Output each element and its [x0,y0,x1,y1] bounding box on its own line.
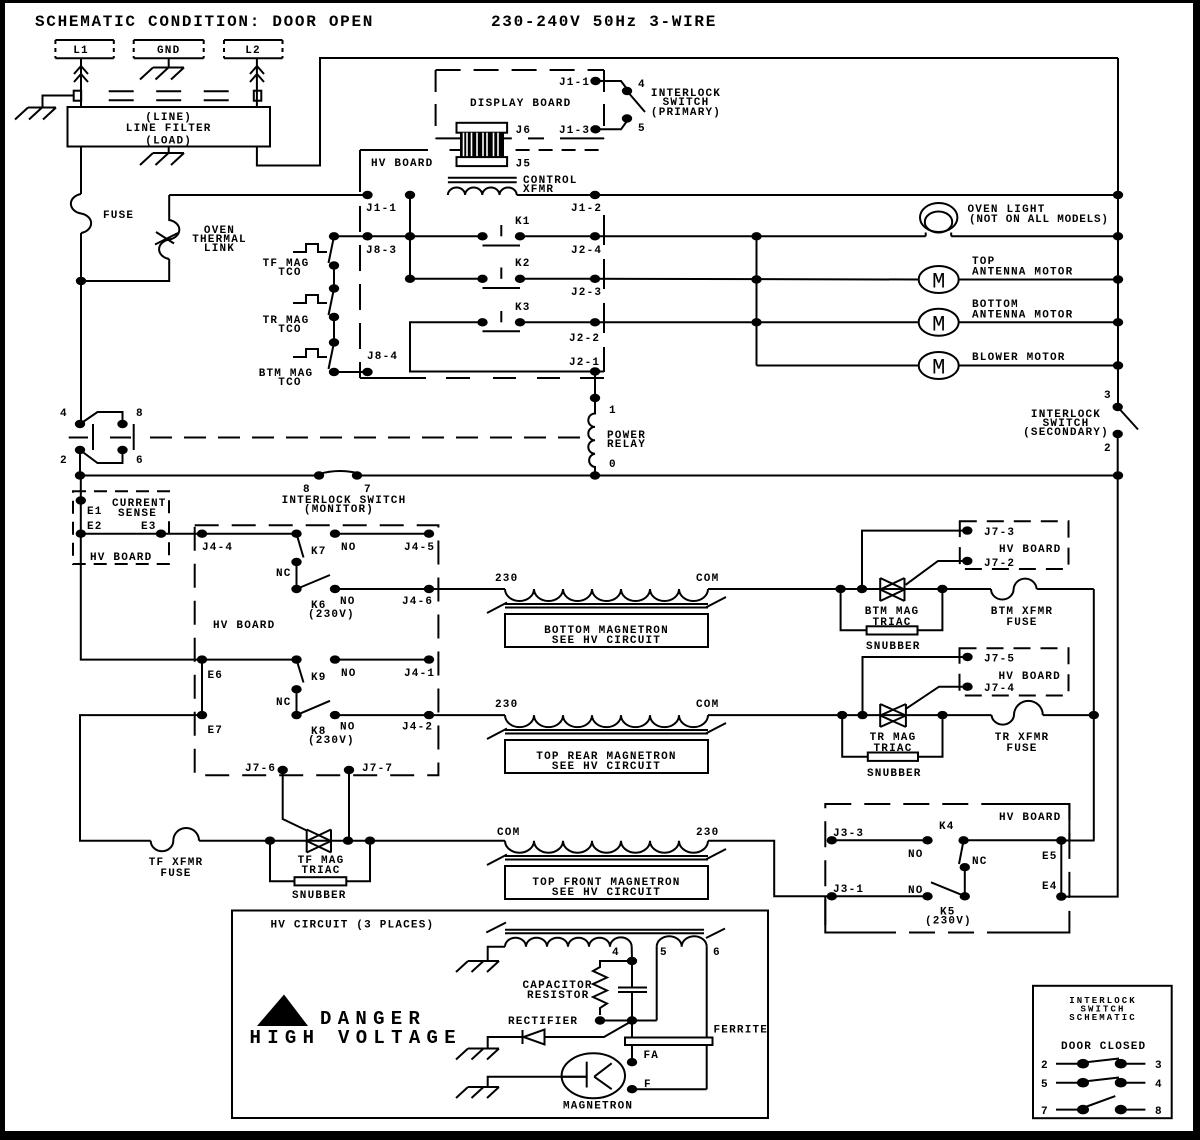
node K9 NC [291,685,301,693]
node 4 [627,957,637,965]
node motor feed top [751,232,761,240]
wire bottom antenna motor to bus [959,321,1118,323]
HV circuit box [232,911,768,1119]
wire tr row [708,714,992,716]
thermal cutout BTM MAG TCO [259,338,340,389]
wire F to winding 6 [632,1088,707,1090]
wire bus to current sense [80,476,82,534]
svg-text:J7-4: J7-4 [984,683,1015,695]
node J3-1 [827,892,837,900]
node btm snubber right [937,585,947,593]
node at relay common bus top [405,191,415,199]
svg-text:ANTENNA MOTOR: ANTENNA MOTOR [972,310,1073,322]
wire K2 to J2-3 [520,278,595,280]
svg-text:J4-1: J4-1 [404,668,435,680]
HV board box (J7-5/J7-4) [960,648,1069,695]
node feed J2-3 [751,275,761,283]
wire E2 to E3 to J4-4 [81,533,297,535]
svg-text:SNUBBER: SNUBBER [867,768,922,780]
node K8 NO [330,711,340,719]
wire tf row [199,840,505,842]
node K6 NO [330,585,340,593]
thermal cutout TR MAG TCO [263,284,340,336]
svg-text:(230V): (230V) [308,735,355,747]
node E7 [197,711,207,719]
node E5 [1056,836,1066,844]
wire J3-1 to K5 NO [832,895,928,897]
wire ground to magnetron cathode [488,1077,587,1087]
svg-text:ANTENNA MOTOR: ANTENNA MOTOR [972,267,1073,279]
svg-text:6: 6 [136,455,144,467]
svg-text:TRIAC: TRIAC [301,865,340,877]
node E2 [76,530,86,538]
svg-text:E1: E1 [87,506,103,518]
node tf snubber left [265,837,275,845]
wire J7-7 down [348,770,350,841]
node K9 NO [330,655,340,663]
svg-text:HIGH VOLTAGE: HIGH VOLTAGE [250,1027,462,1049]
svg-text:DOOR CLOSED: DOOR CLOSED [1061,1041,1146,1053]
svg-text:HV BOARD: HV BOARD [999,812,1061,824]
node J7-4 [962,683,972,691]
rectifier [488,1016,631,1049]
svg-text:5: 5 [660,947,668,959]
wire NC to K6 [296,562,298,589]
svg-text:NO: NO [340,596,356,608]
svg-text:NO: NO [908,849,924,861]
svg-text:K2: K2 [515,258,531,270]
wire J1-1 to primary switch [596,81,628,89]
relay contact K2 [477,258,530,288]
svg-text:L1: L1 [73,45,89,57]
wire J7-2 to btm triac gate [906,561,968,585]
node J2-3 [590,275,600,283]
svg-text:(MONITOR): (MONITOR) [304,504,374,516]
top antenna motor [919,266,959,295]
wire filter left output down [80,147,82,195]
node J2-1 [590,367,600,375]
svg-text:LINE FILTER: LINE FILTER [126,123,212,135]
svg-text:J1-2: J1-2 [571,203,602,215]
wire tr fuse to bus node [1043,714,1094,716]
svg-text:4: 4 [612,947,620,959]
svg-text:COM: COM [497,827,520,839]
svg-text:J6: J6 [516,125,532,137]
wire NC to K8 [296,689,298,715]
node J7-7 [344,766,354,774]
relay K7 [291,530,326,559]
top rear magnetron transformer primary [487,699,726,739]
svg-text:(LOAD): (LOAD) [145,136,192,148]
svg-text:E5: E5 [1042,851,1058,863]
svg-text:BLOWER MOTOR: BLOWER MOTOR [972,352,1066,364]
svg-text:3: 3 [1155,1060,1163,1072]
bottom bus right section [357,475,1118,477]
node K4 NC [960,863,970,871]
svg-text:J2-2: J2-2 [569,333,600,345]
svg-text:HV BOARD: HV BOARD [371,158,433,170]
connector J6 [457,123,508,133]
svg-text:K7: K7 [311,546,327,558]
svg-text:NC: NC [972,856,988,868]
svg-text:NO: NO [341,668,357,680]
svg-text:SEE HV CIRCUIT: SEE HV CIRCUIT [552,761,661,773]
svg-text:NO: NO [341,542,357,554]
ground (below line filter) [140,153,184,165]
wire K2 row [410,278,483,280]
svg-text:2: 2 [1041,1060,1049,1072]
svg-text:230: 230 [495,699,518,711]
current sense box [73,491,169,564]
node J8-4 [362,368,372,376]
filament winding 5-6 [657,936,707,946]
node FA [627,1058,637,1066]
interlock switch primary [622,79,646,135]
svg-text:NC: NC [276,568,292,580]
svg-text:FERRITE: FERRITE [714,1025,769,1037]
svg-text:FUSE: FUSE [103,210,134,222]
wire K8 NO to J4-2 [335,714,505,716]
HV winding [505,937,632,946]
ground (rectifier) [456,1049,499,1060]
node J1-1 (HV board) [362,191,372,199]
node K7 NC [291,558,301,566]
svg-text:J1-1: J1-1 [366,203,397,215]
svg-text:HV CIRCUIT (3 PLACES): HV CIRCUIT (3 PLACES) [271,920,435,932]
svg-text:SNUBBER: SNUBBER [292,890,347,902]
svg-text:J3-3: J3-3 [833,828,864,840]
wire K3 step [410,322,604,371]
bottom bus wire [80,475,319,477]
wire L2 down to line filter [256,58,258,107]
node J4-4 [197,530,207,538]
wire J7-6 to TF triac gate [283,770,307,831]
svg-text:J4-5: J4-5 [404,542,435,554]
svg-text:230-240V 50Hz 3-WIRE: 230-240V 50Hz 3-WIRE [491,13,717,31]
wire blower motor to bus [959,365,1118,367]
wire thermal link to J1-1 [169,194,367,196]
svg-text:J7-5: J7-5 [984,654,1015,666]
thermal cutout TF MAG TCO [263,232,340,279]
wire rail to filament winding [656,947,658,1021]
wire oven light to bus [951,235,1118,237]
interlock switch secondary [1104,390,1138,455]
node J7-2 [962,557,972,565]
node E4 [1056,892,1066,900]
arrow on L1 wire [74,66,88,82]
svg-text:HV BOARD: HV BOARD [999,544,1061,556]
wire top antenna motor to bus [959,279,1118,281]
ferrite box on L2 wire [254,91,261,101]
relay K6 [291,575,355,621]
wire bottom node rail [600,1020,657,1022]
top front magnetron transformer primary [487,827,726,865]
HV board (relay) outline [360,150,604,378]
connector J5 [457,157,508,166]
triac TR MAG [880,704,906,727]
wire J2-3 row to motor [595,278,919,281]
svg-text:K3: K3 [515,302,531,314]
svg-text:(NOT ON ALL MODELS): (NOT ON ALL MODELS) [969,214,1109,226]
svg-text:RELAY: RELAY [607,439,646,451]
wire E2 down to E6 row [81,534,297,660]
svg-text:SEE HV CIRCUIT: SEE HV CIRCUIT [552,635,661,647]
node K1 common [405,232,415,240]
blower motor [919,352,959,381]
wire btm fuse to bus [1037,588,1094,590]
oven light lamp [920,203,957,236]
bottom magnetron box [505,614,708,647]
svg-text:J4-6: J4-6 [402,596,433,608]
svg-text:COM: COM [696,699,719,711]
node power relay top [590,394,600,402]
door switch contact 7-8 [1041,1096,1163,1118]
node tr J7-5 riser [857,711,867,719]
wire K9 NO to J4-1 [335,659,429,661]
node J1-2 [590,191,600,199]
svg-text:230: 230 [495,573,518,585]
wire winding to node 4 [631,947,633,961]
svg-text:(230V): (230V) [925,916,972,928]
svg-text:SNUBBER: SNUBBER [866,641,921,653]
relay K4 [939,821,969,864]
node K7 NO [330,530,340,538]
wire winding 6 down through ferrite [706,947,708,1089]
wire J2-4 row to oven light [595,235,926,237]
svg-text:FUSE: FUSE [160,868,191,880]
resistor [593,961,632,1015]
svg-text:GND: GND [157,45,180,57]
wire E7 row to TF transformer [80,715,202,841]
snubber (btm) [841,589,943,653]
mechanical linkage dashed line [150,437,583,439]
node feed J2-2 [751,318,761,326]
node bus oven light [1113,232,1123,240]
control xfmr coil [448,188,517,196]
ground (cathode) [456,1087,499,1098]
svg-text:J7-3: J7-3 [984,527,1015,539]
node bus J1-2 [1113,191,1123,199]
svg-text:5: 5 [638,123,646,135]
svg-text:4: 4 [60,408,68,420]
oven thermal link [159,195,179,259]
fuse TF XFMR [151,828,199,851]
node J4-1 [424,655,434,663]
svg-text:(230V): (230V) [308,609,355,621]
svg-text:K1: K1 [515,216,531,228]
snubber (tr) [842,715,942,780]
svg-text:RECTIFIER: RECTIFIER [508,1016,578,1028]
svg-text:2: 2 [1104,443,1112,455]
svg-text:J4-2: J4-2 [402,722,433,734]
ferrite bar [625,1038,713,1046]
svg-text:M: M [932,312,945,337]
svg-text:3: 3 [1104,390,1112,402]
svg-text:(SECONDARY): (SECONDARY) [1023,427,1109,439]
svg-text:RESISTOR: RESISTOR [527,990,589,1002]
node tr snubber right [937,711,947,719]
svg-text:4: 4 [1155,1079,1163,1091]
node F [627,1085,637,1093]
svg-text:6: 6 [713,947,721,959]
wire GND down [168,58,170,67]
node J2-2 [590,318,600,326]
node tf J7-7 [343,837,353,845]
relay K5 [925,882,972,927]
node J7-6 [278,766,288,774]
node K5 NO [922,892,932,900]
HV board (K7-K8) outline [195,525,439,775]
node E1 [76,496,86,504]
wire L1 down to line filter [80,58,82,107]
wire K6 NO to J4-6 [335,588,505,590]
wire E5-E4 link [1060,841,1062,897]
node J8-3 [362,232,372,240]
wire TCO link 1 [333,266,335,289]
node E3 [156,530,166,538]
svg-text:NO: NO [908,885,924,897]
wire NC to K5 [964,867,966,896]
wire filter to ground below [168,147,170,154]
node btm snubber left [835,585,845,593]
wire filter right output to top bus [257,58,1118,166]
magnetron [562,1053,634,1112]
bottom antenna motor [919,309,959,338]
svg-text:4: 4 [638,79,646,91]
svg-text:E7: E7 [208,725,224,737]
fuse TR XFMR [992,701,1043,725]
svg-text:SENSE: SENSE [118,508,157,520]
svg-text:1: 1 [609,405,617,417]
wire ground to HV winding [488,947,505,961]
filter capacitor dashes [109,91,229,100]
svg-text:J2-3: J2-3 [571,287,602,299]
node bus bottom antenna [1113,318,1123,326]
svg-text:(PRIMARY): (PRIMARY) [651,107,721,119]
wire node to oven thermal link [81,259,169,281]
wire node to door switch [80,281,82,424]
svg-text:8: 8 [136,408,144,420]
svg-text:HV BOARD: HV BOARD [213,620,275,632]
svg-text:HV BOARD: HV BOARD [90,552,152,564]
top rear magnetron box [505,740,708,773]
connector ribbon [460,133,504,158]
node J3-3 [827,836,837,844]
svg-text:7: 7 [1041,1106,1049,1118]
terminal GND [134,40,204,58]
svg-text:J3-1: J3-1 [833,884,864,896]
door switch contact 2-3 [1041,1059,1163,1073]
svg-text:TCO: TCO [278,324,301,336]
svg-text:FA: FA [644,1050,660,1062]
svg-text:J2-4: J2-4 [571,245,602,257]
arrow on L2 wire [250,66,264,82]
wire from L1 ferrite to chassis ground [43,96,74,108]
wire tf row to J3-1 [708,841,832,897]
capacitor [618,961,647,1021]
ground (HV secondary) [456,961,499,972]
node relay bottom [590,471,600,479]
wire switch to bottom bus [79,450,81,476]
wire J2-2 row to motor [595,321,919,323]
node bus blower [1113,361,1123,369]
wire node to FA [631,1021,633,1063]
svg-text:M: M [932,270,945,295]
svg-text:E4: E4 [1042,881,1058,893]
ground (left chassis) [15,108,56,120]
svg-text:J7-7: J7-7 [362,763,393,775]
svg-text:DISPLAY BOARD: DISPLAY BOARD [470,98,571,110]
wire J7-4 to tr triac gate [906,687,968,709]
node bus bottom row [1113,471,1123,479]
wire K1 to J2-4 [520,235,595,237]
wire E5 to fuse bus [1061,840,1094,842]
line filter box [68,107,271,147]
fuse (main) [71,194,91,233]
wire coil row to J1-2 [517,194,1118,196]
svg-text:TCO: TCO [278,267,301,279]
svg-text:J8-4: J8-4 [367,351,398,363]
svg-text:FUSE: FUSE [1006,617,1037,629]
svg-text:LINK: LINK [204,243,235,255]
door switch contact 5-4 [1041,1078,1163,1092]
node J4-2 [424,711,434,719]
svg-text:NO: NO [340,722,356,734]
svg-text:K4: K4 [939,821,955,833]
svg-text:J1-1: J1-1 [559,77,590,89]
relay K9 [291,655,326,684]
top front magnetron box [505,866,708,899]
danger triangle [257,995,308,1027]
node at fuse bottom [76,277,86,285]
svg-text:0: 0 [609,459,617,471]
svg-text:COM: COM [696,573,719,585]
bottom magnetron transformer primary [487,573,726,613]
HV transformer secondary core [486,923,725,939]
power relay coil [588,398,595,476]
node K2 common [405,275,415,283]
relay contact K1 [477,216,530,246]
fuse BTM XFMR [991,579,1037,600]
wire J2-1 to power relay [594,372,596,399]
svg-text:230: 230 [696,827,719,839]
node tf snubber right [365,837,375,845]
node K4 NO [922,836,932,844]
node resistor bottom [595,1016,605,1024]
fuse bus vertical [1093,589,1095,841]
svg-text:TCO: TCO [278,377,301,389]
svg-text:K9: K9 [311,672,327,684]
relay K8 [291,701,355,747]
svg-text:NC: NC [276,697,292,709]
snubber (tf) [270,841,370,902]
svg-text:HV BOARD: HV BOARD [999,671,1061,683]
wire J3-3 to K4 NO [832,839,928,841]
node J2-4 [590,232,600,240]
svg-text:SEE HV CIRCUIT: SEE HV CIRCUIT [552,887,661,899]
svg-text:MAGNETRON: MAGNETRON [563,1101,633,1113]
node tr snubber left [837,711,847,719]
wire K3 to J2-2 [520,321,595,323]
svg-text:E6: E6 [208,670,224,682]
node J7-3 [962,526,972,534]
terminal L2 [224,40,283,58]
triac BTM MAG [880,578,904,601]
svg-text:2: 2 [60,455,68,467]
wire E6 to E7 [201,660,203,716]
wire blower row [757,365,919,367]
wire K4 to E5 [964,839,1062,841]
